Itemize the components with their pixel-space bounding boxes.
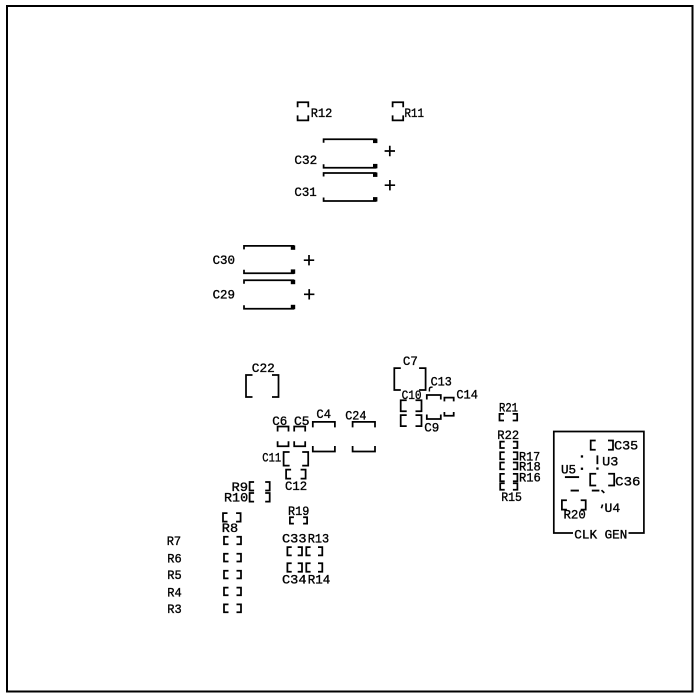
- svg-text:C32: C32: [294, 153, 317, 168]
- resistor R9: [232, 480, 270, 495]
- svg-text:R5: R5: [167, 568, 181, 583]
- resistor R17: [500, 449, 540, 464]
- capacitor C9: [401, 415, 440, 436]
- capacitor C34: [282, 563, 307, 587]
- svg-text:R20: R20: [564, 507, 586, 522]
- svg-text:R10: R10: [224, 490, 248, 505]
- capacitor C33: [282, 531, 307, 555]
- svg-text:C11: C11: [262, 451, 281, 466]
- svg-text:U5: U5: [561, 462, 576, 477]
- svg-text:R21: R21: [499, 400, 518, 415]
- svg-text:C10: C10: [402, 388, 422, 403]
- capacitor C10: [401, 388, 422, 411]
- svg-text:R3: R3: [167, 602, 181, 617]
- resistor R5: [167, 568, 241, 583]
- capacitor C36: [590, 474, 640, 490]
- capacitor C6: [272, 414, 288, 446]
- capacitor C12: [285, 470, 307, 494]
- capacitor C30: [213, 245, 315, 273]
- svg-text:C33: C33: [282, 531, 307, 546]
- svg-text:C34: C34: [282, 573, 307, 588]
- resistor R6: [167, 551, 241, 566]
- resistor R4: [167, 586, 241, 601]
- capacitor C7: [394, 354, 425, 390]
- capacitor C35: [591, 439, 638, 454]
- svg-text:R8: R8: [222, 521, 238, 536]
- svg-text:C36: C36: [615, 474, 640, 489]
- svg-text:C35: C35: [614, 439, 638, 454]
- svg-text:R6: R6: [167, 551, 181, 566]
- capacitor C13: [427, 374, 452, 419]
- svg-text:C14: C14: [456, 387, 478, 402]
- resistor R14: [306, 563, 330, 587]
- capacitor C5: [294, 414, 310, 446]
- CLK GEN block outline: [554, 432, 644, 543]
- capacitor C29: [213, 280, 315, 309]
- resistor R22: [497, 428, 519, 448]
- svg-text:C31: C31: [294, 185, 316, 200]
- resistor R18: [500, 460, 541, 475]
- resistor R11: [393, 102, 425, 121]
- svg-text:R7: R7: [167, 534, 181, 549]
- IC U3: [581, 455, 619, 470]
- svg-text:R13: R13: [308, 531, 329, 546]
- svg-text:C4: C4: [316, 407, 331, 422]
- svg-text:R15: R15: [501, 490, 522, 505]
- resistor R12: [298, 102, 333, 121]
- svg-text:C5: C5: [294, 414, 310, 429]
- capacitor C32: [294, 139, 395, 169]
- svg-text:C24: C24: [345, 408, 366, 423]
- resistor R8: [222, 513, 241, 536]
- svg-text:R4: R4: [167, 586, 182, 601]
- svg-text:U3: U3: [602, 455, 618, 470]
- IC U5: [561, 462, 579, 477]
- resistor R13: [306, 531, 329, 555]
- capacitor C22: [246, 361, 279, 397]
- svg-text:R11: R11: [405, 106, 425, 121]
- capacitor C24: [345, 408, 375, 451]
- svg-text:C30: C30: [213, 253, 235, 268]
- svg-text:C22: C22: [252, 361, 275, 376]
- resistor R16: [500, 471, 541, 486]
- capacitor C14: [444, 387, 478, 416]
- resistor R7: [167, 534, 241, 549]
- capacitor C4: [313, 407, 335, 451]
- resistor R10: [224, 490, 270, 505]
- svg-text:R14: R14: [308, 573, 331, 588]
- resistor R19: [288, 504, 309, 523]
- svg-text:C9: C9: [424, 421, 439, 436]
- resistor R21: [499, 400, 518, 420]
- capacitor C11: [262, 451, 308, 466]
- svg-text:U4: U4: [605, 501, 621, 516]
- svg-text:R22: R22: [497, 428, 519, 443]
- svg-text:R19: R19: [288, 504, 309, 519]
- svg-text:R12: R12: [311, 106, 333, 121]
- IC U4: [601, 501, 620, 516]
- svg-text:C7: C7: [403, 354, 418, 369]
- svg-text:C29: C29: [213, 287, 235, 302]
- resistor R15: [500, 483, 522, 505]
- resistor R3: [167, 602, 241, 617]
- capacitor C31: [294, 173, 395, 202]
- svg-text:CLK GEN: CLK GEN: [574, 528, 627, 543]
- IC U4 outline dashes: [571, 490, 605, 493]
- resistor R20: [562, 500, 586, 522]
- svg-text:C6: C6: [272, 414, 287, 429]
- svg-text:C13: C13: [431, 374, 452, 389]
- svg-text:C12: C12: [285, 479, 307, 494]
- svg-text:R16: R16: [519, 471, 541, 486]
